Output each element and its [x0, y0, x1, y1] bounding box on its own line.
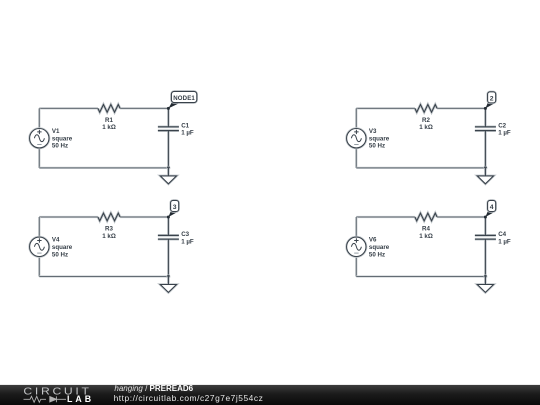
svg-text:square: square — [52, 136, 73, 143]
wire: top-right segment (R3 to node 3) — [120, 216, 168, 218]
voltage source V1 — [30, 129, 49, 148]
svg-text:square: square — [369, 244, 390, 251]
svg-text:1 kΩ: 1 kΩ — [419, 124, 433, 131]
wire: top-right segment (R4 to node 4) — [437, 216, 485, 218]
svg-text:R2: R2 — [422, 117, 430, 124]
wire: left vertical upper lead of V1 — [38, 108, 40, 128]
svg-text:LAB: LAB — [67, 394, 94, 404]
svg-text:50 Hz: 50 Hz — [52, 251, 68, 258]
wire: bottom horizontal segment — [356, 167, 485, 169]
wire: left vertical upper lead of V4 — [38, 217, 40, 237]
capacitor C1 — [158, 108, 179, 167]
voltage source V3 — [347, 129, 366, 148]
wire: top-left segment (V1 to R1) — [39, 107, 98, 109]
wire: top-right segment (R1 to node NODE1) — [120, 107, 168, 109]
wire: bottom horizontal segment — [39, 167, 168, 169]
resistor R3 — [98, 213, 120, 221]
svg-text:C1: C1 — [181, 122, 189, 129]
svg-text:R3: R3 — [105, 225, 113, 232]
resistor R1 — [98, 105, 120, 113]
svg-text:hanging / PREREAD6: hanging / PREREAD6 — [114, 384, 193, 393]
node NODE1 — [167, 91, 197, 110]
wire: left vertical lower lead of V6 — [355, 257, 357, 277]
voltage source V6 — [347, 237, 366, 256]
svg-text:1 µF: 1 µF — [181, 238, 194, 245]
wire: left vertical lower lead of V4 — [38, 257, 40, 277]
ground — [160, 277, 176, 293]
node 4 — [484, 200, 496, 218]
wire: left vertical upper lead of V3 — [355, 108, 357, 128]
wire: top-right segment (R2 to node 2) — [437, 107, 485, 109]
resistor R4 — [415, 213, 437, 221]
svg-text:1 kΩ: 1 kΩ — [102, 124, 116, 131]
wire: left vertical lower lead of V3 — [355, 148, 357, 168]
wire: left vertical upper lead of V6 — [355, 217, 357, 237]
svg-text:R1: R1 — [105, 117, 113, 124]
wire: top-left segment (V6 to R4) — [356, 216, 415, 218]
capacitor C2 — [475, 108, 496, 167]
junction dot at ground of C3 — [166, 275, 170, 279]
ground — [477, 277, 493, 293]
node 2 — [484, 92, 496, 110]
wire: left vertical lower lead of V1 — [38, 148, 40, 168]
svg-text:3: 3 — [173, 204, 177, 211]
svg-text:1 µF: 1 µF — [181, 130, 194, 137]
svg-text:NODE1: NODE1 — [173, 95, 195, 102]
svg-text:C4: C4 — [498, 231, 506, 238]
ground — [477, 168, 493, 184]
wire: top-left segment (V3 to R2) — [356, 107, 415, 109]
svg-text:50 Hz: 50 Hz — [369, 251, 385, 258]
svg-text:C2: C2 — [498, 122, 506, 129]
svg-text:1 kΩ: 1 kΩ — [419, 233, 433, 240]
wire: bottom horizontal segment — [356, 275, 485, 277]
resistor R2 — [415, 105, 437, 113]
svg-text:square: square — [369, 136, 390, 143]
svg-text:2: 2 — [490, 96, 494, 103]
node 3 — [167, 200, 179, 218]
voltage source V4 — [30, 237, 49, 256]
capacitor C3 — [158, 217, 179, 277]
wire: top-left segment (V4 to R3) — [39, 216, 98, 218]
svg-text:V1: V1 — [52, 128, 60, 135]
svg-text:http://circuitlab.com/c27g7e7j: http://circuitlab.com/c27g7e7j554cz — [114, 393, 264, 403]
svg-text:V3: V3 — [369, 128, 377, 135]
svg-text:50 Hz: 50 Hz — [369, 143, 385, 150]
junction dot at ground of C4 — [483, 275, 487, 279]
svg-text:V6: V6 — [369, 236, 377, 243]
svg-text:1 µF: 1 µF — [498, 130, 511, 137]
junction dot at ground of C2 — [483, 166, 487, 170]
wire: bottom horizontal segment — [39, 275, 168, 277]
capacitor C4 — [475, 217, 496, 277]
svg-text:C3: C3 — [181, 231, 189, 238]
junction dot at ground of C1 — [166, 166, 170, 170]
ground — [160, 168, 176, 184]
svg-text:50 Hz: 50 Hz — [52, 143, 68, 150]
svg-text:4: 4 — [490, 204, 494, 211]
svg-text:square: square — [52, 244, 73, 251]
svg-text:1 kΩ: 1 kΩ — [102, 233, 116, 240]
svg-text:R4: R4 — [422, 225, 430, 232]
svg-text:1 µF: 1 µF — [498, 238, 511, 245]
svg-text:V4: V4 — [52, 236, 60, 243]
CircuitLab logo schematic glyph (resistor + diode) — [24, 396, 67, 402]
